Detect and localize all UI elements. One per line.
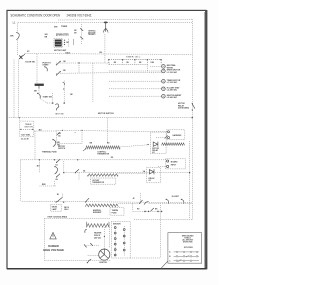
svg-text:(ON BOARD): (ON BOARD) (178, 106, 189, 109)
svg-text:WH-2: WH-2 (64, 209, 68, 211)
svg-text:L1-120 VAC: L1-120 VAC (167, 71, 178, 74)
svg-text:TIMER 131C: TIMER 131C (126, 57, 141, 59)
svg-text:BOARD: BOARD (171, 161, 178, 164)
svg-text:BELT SW: BELT SW (55, 114, 63, 116)
svg-text:K1: K1 (149, 180, 151, 182)
svg-text:PER AGENCY: PER AGENCY (88, 33, 96, 36)
svg-text:2.5-3.5 W: 2.5-3.5 W (21, 138, 29, 140)
svg-text:120V 60HZ: 120V 60HZ (21, 135, 31, 137)
svg-text:3M: 3M (70, 94, 73, 96)
svg-text:START SW: START SW (43, 95, 53, 98)
svg-text:L2-240 VAC: L2-240 VAC (167, 96, 178, 99)
svg-text:FUSE: FUSE (112, 212, 118, 214)
svg-text:THERMISTOR: THERMISTOR (97, 153, 110, 155)
svg-text:K2: K2 (152, 152, 154, 154)
svg-text:SWITCH SYMBOLS: SWITCH SYMBOLS (184, 247, 194, 249)
svg-text:THERMISTOR: THERMISTOR (92, 182, 105, 184)
svg-text:2M: 2M (63, 70, 66, 72)
svg-text:SENSOR: SENSOR (113, 224, 121, 226)
svg-text:L1-120 VAC: L1-120 VAC (167, 81, 178, 84)
svg-text:HARNESS: HARNESS (173, 134, 183, 137)
svg-text:WH: WH (54, 27, 58, 29)
svg-text:SCHEMATIC CONDITION: DOOR OPEN: SCHEMATIC CONDITION: DOOR OPEN (11, 13, 61, 17)
svg-text:L2-240 VAC: L2-240 VAC (167, 89, 178, 92)
svg-text:IGNITOR: IGNITOR (99, 262, 107, 264)
svg-text:MAIN: MAIN (65, 51, 71, 54)
svg-text:SWITCH: SWITCH (58, 148, 66, 150)
svg-text:240/208 VOLT 60HZ.: 240/208 VOLT 60HZ. (67, 13, 93, 17)
svg-text:INPUT: INPUT (171, 164, 177, 166)
svg-text:MOTOR SWITCH: MOTOR SWITCH (98, 113, 114, 115)
svg-text:[DRIVE MOTOR]: [DRIVE MOTOR] (56, 33, 69, 36)
svg-text:HI-LIMIT: HI-LIMIT (172, 196, 180, 198)
svg-text:START: START (42, 64, 49, 67)
svg-text:BK: BK (10, 36, 14, 38)
svg-text:MOTOR: MOTOR (25, 127, 34, 129)
svg-text:DOOR SW.: DOOR SW. (25, 62, 35, 64)
svg-text:HIGH VOLTAGE AREA: HIGH VOLTAGE AREA (48, 215, 68, 218)
svg-text:THERMAL FUSE: THERMAL FUSE (42, 151, 58, 154)
svg-text:240 VAC: 240 VAC (94, 236, 102, 239)
svg-text:SHOWN OPEN): SHOWN OPEN) (183, 242, 193, 244)
svg-text:1M: 1M (63, 61, 66, 63)
svg-text:HIGH VOLTAGE: HIGH VOLTAGE (43, 248, 64, 252)
svg-text:ELEMENT: ELEMENT (93, 212, 102, 214)
svg-text:TIMER: TIMER (61, 26, 68, 28)
